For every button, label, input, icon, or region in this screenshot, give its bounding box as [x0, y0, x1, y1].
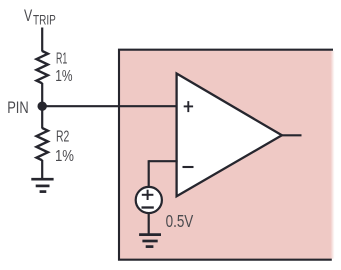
- svg-text:TRIP: TRIP: [33, 12, 56, 28]
- svg-text:1%: 1%: [55, 68, 72, 85]
- svg-text:PIN: PIN: [7, 98, 29, 117]
- svg-text:V: V: [24, 6, 33, 25]
- svg-text:1%: 1%: [55, 148, 74, 165]
- svg-text:R2: R2: [56, 128, 69, 145]
- svg-text:R1: R1: [56, 51, 67, 68]
- svg-text:0.5V: 0.5V: [166, 211, 194, 231]
